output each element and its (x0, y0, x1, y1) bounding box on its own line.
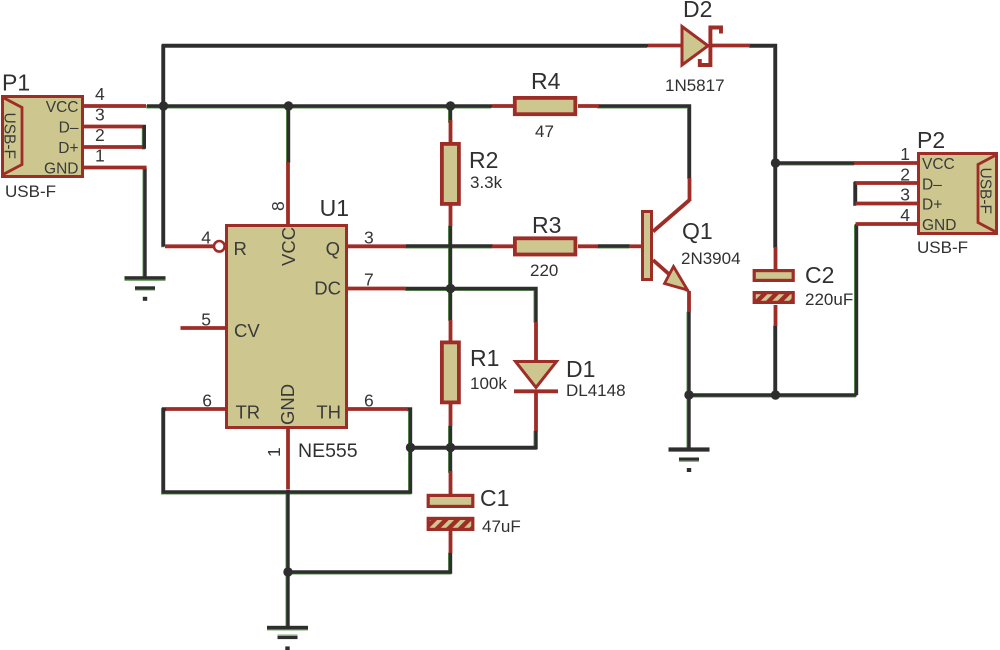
svg-text:220uF: 220uF (805, 290, 853, 309)
svg-text:NE555: NE555 (298, 440, 358, 462)
svg-text:D1: D1 (566, 356, 595, 382)
svg-text:2: 2 (900, 165, 910, 185)
svg-text:1: 1 (900, 144, 910, 164)
svg-text:VCC: VCC (46, 99, 79, 116)
svg-text:1: 1 (95, 146, 105, 166)
svg-text:D2: D2 (683, 0, 712, 22)
svg-text:3: 3 (95, 105, 105, 125)
svg-text:P2: P2 (917, 127, 945, 153)
svg-text:D+: D+ (58, 140, 78, 157)
svg-text:USB-F: USB-F (1, 113, 18, 160)
svg-text:R2: R2 (469, 147, 498, 173)
svg-text:D–: D– (922, 177, 942, 194)
svg-text:100k: 100k (470, 374, 507, 393)
svg-text:DC: DC (314, 278, 341, 299)
svg-text:5: 5 (201, 310, 211, 330)
svg-text:P1: P1 (2, 70, 30, 96)
svg-text:U1: U1 (320, 195, 349, 221)
svg-text:DL4148: DL4148 (566, 381, 626, 400)
svg-text:47uF: 47uF (482, 517, 521, 536)
svg-text:GND: GND (277, 384, 298, 425)
svg-text:2N3904: 2N3904 (681, 249, 741, 268)
svg-text:8: 8 (268, 201, 288, 211)
svg-text:4: 4 (95, 84, 105, 104)
svg-text:GND: GND (44, 161, 78, 178)
svg-text:2: 2 (95, 125, 105, 145)
svg-text:USB-F: USB-F (917, 238, 968, 257)
svg-text:C1: C1 (480, 485, 509, 511)
svg-text:GND: GND (922, 217, 956, 234)
svg-text:CV: CV (234, 320, 260, 341)
svg-text:7: 7 (364, 270, 374, 290)
svg-text:D–: D– (59, 120, 79, 137)
svg-text:USB-F: USB-F (977, 168, 994, 215)
svg-text:R3: R3 (532, 212, 561, 238)
svg-text:220: 220 (530, 261, 558, 280)
svg-text:D+: D+ (922, 197, 942, 214)
svg-text:VCC: VCC (922, 156, 955, 173)
svg-text:VCC: VCC (278, 227, 299, 266)
svg-text:Q1: Q1 (682, 218, 713, 244)
svg-text:3: 3 (364, 228, 374, 248)
svg-text:R4: R4 (531, 68, 561, 94)
svg-text:4: 4 (201, 228, 211, 248)
svg-text:Q: Q (326, 238, 340, 259)
svg-text:6: 6 (202, 391, 212, 411)
svg-text:4: 4 (900, 205, 910, 225)
svg-text:1: 1 (264, 447, 284, 457)
svg-text:3: 3 (900, 185, 910, 205)
svg-text:6: 6 (364, 391, 374, 411)
svg-text:1N5817: 1N5817 (665, 76, 725, 95)
svg-text:R: R (234, 238, 247, 259)
svg-text:3.3k: 3.3k (470, 173, 503, 192)
svg-text:TH: TH (316, 402, 341, 423)
svg-text:USB-F: USB-F (5, 182, 56, 201)
svg-text:R1: R1 (470, 345, 499, 371)
svg-text:C2: C2 (805, 262, 834, 288)
svg-text:47: 47 (535, 122, 554, 141)
svg-text:TR: TR (236, 402, 261, 423)
